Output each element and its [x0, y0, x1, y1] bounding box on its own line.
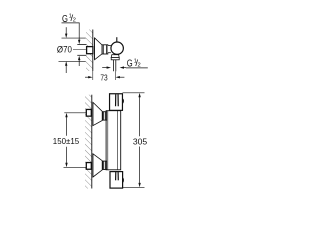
svg-text:73: 73	[100, 73, 108, 82]
svg-text:305: 305	[133, 136, 148, 146]
svg-text:2: 2	[138, 63, 141, 69]
svg-text:G: G	[62, 14, 68, 25]
svg-text:150±15: 150±15	[53, 136, 80, 146]
svg-text:Ø70: Ø70	[57, 44, 72, 54]
svg-text:G: G	[127, 59, 133, 70]
svg-text:2: 2	[73, 17, 76, 23]
